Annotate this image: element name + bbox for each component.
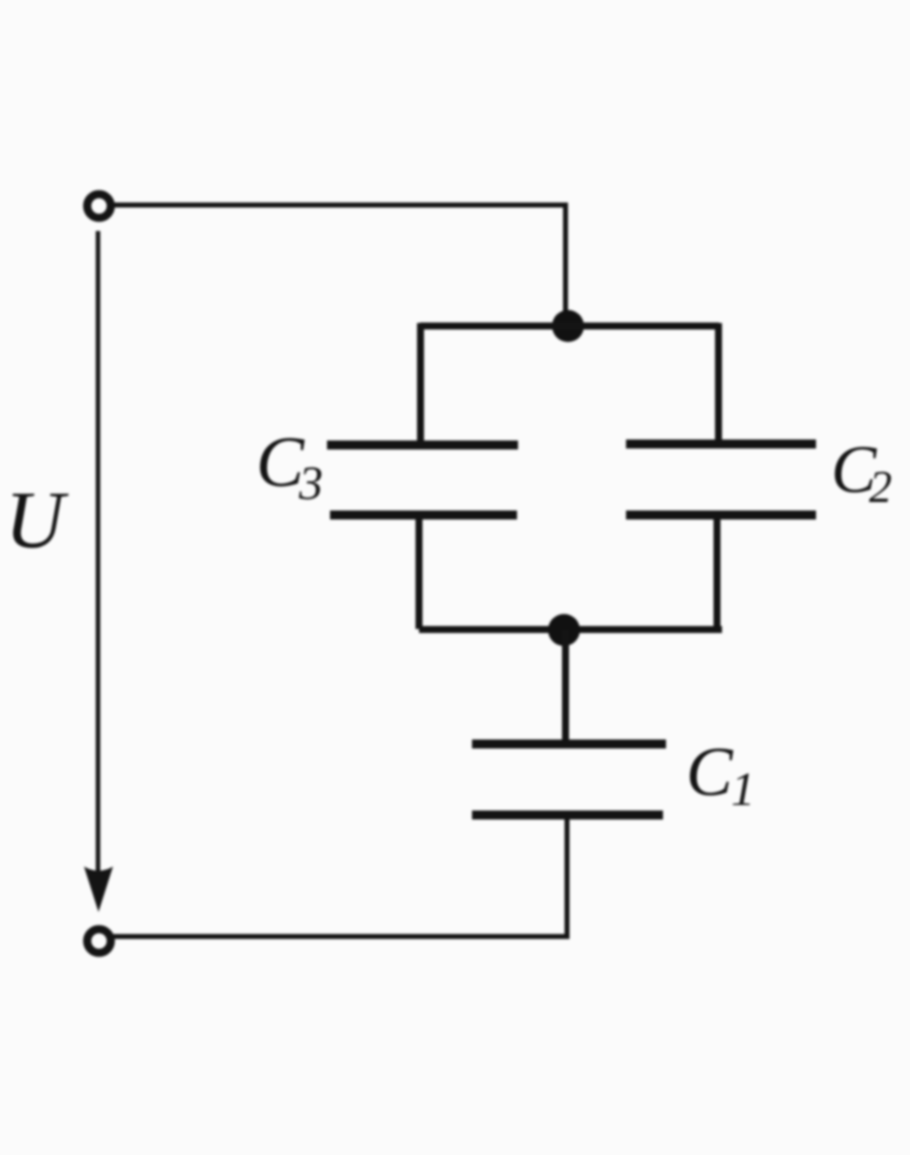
wire top bus between C3 and C2 branches	[420, 323, 719, 330]
wire top: from top terminal right to junction node	[113, 205, 566, 322]
capacitor C1 top plate	[472, 740, 666, 749]
capacitor C3 bottom plate	[330, 511, 517, 520]
capacitor C2 bottom plate	[626, 511, 816, 520]
svg-text:U: U	[5, 474, 69, 565]
svg-text:1: 1	[731, 763, 755, 816]
wire middle lead to C1	[562, 630, 569, 744]
arrowhead of U	[84, 867, 113, 913]
wire right branch lower lead	[714, 515, 721, 629]
capacitor C3 top plate	[327, 441, 518, 450]
node junction top	[552, 310, 584, 342]
wire right branch upper lead	[715, 323, 722, 444]
wire bottom: from C1 down and left to bottom terminal	[113, 815, 567, 937]
wire bottom bus between branches	[419, 626, 722, 633]
capacitor C1 bottom plate	[472, 811, 663, 820]
node junction bottom	[548, 614, 580, 646]
wire left branch lower lead	[416, 515, 423, 629]
svg-text:C: C	[256, 422, 305, 502]
wire left branch upper lead	[417, 323, 424, 445]
svg-text:3: 3	[298, 457, 323, 510]
svg-text:2: 2	[869, 461, 892, 512]
wire left voltage line	[96, 231, 101, 874]
terminal top-left	[87, 194, 111, 218]
svg-text:C: C	[686, 734, 734, 811]
capacitor C2 top plate	[626, 440, 816, 449]
terminal bottom-left	[87, 929, 111, 953]
